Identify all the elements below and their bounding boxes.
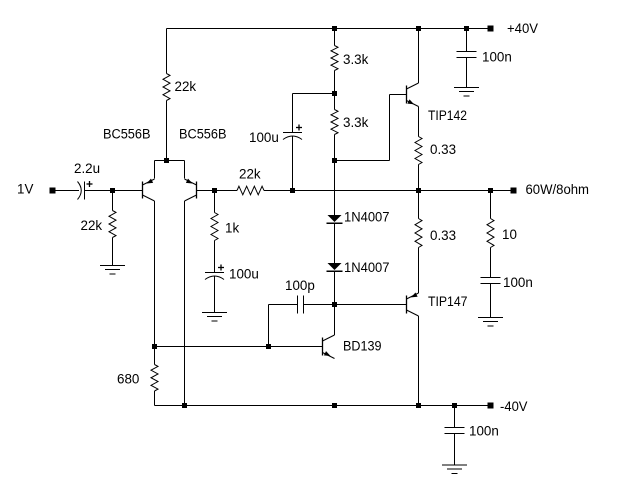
- svg-text:3.3k: 3.3k: [343, 115, 369, 130]
- svg-text:3.3k: 3.3k: [343, 52, 369, 67]
- svg-text:680: 680: [117, 372, 139, 387]
- svg-text:+40V: +40V: [507, 21, 538, 36]
- svg-text:100n: 100n: [503, 275, 533, 290]
- svg-text:1V: 1V: [17, 182, 33, 197]
- svg-text:TIP142: TIP142: [428, 108, 467, 123]
- svg-text:2.2u: 2.2u: [74, 161, 100, 176]
- svg-text:22k: 22k: [175, 79, 197, 94]
- svg-text:BC556B: BC556B: [179, 127, 227, 142]
- svg-text:BC556B: BC556B: [103, 127, 151, 142]
- svg-text:1N4007: 1N4007: [344, 210, 390, 225]
- svg-text:100u: 100u: [229, 267, 259, 282]
- svg-text:0.33: 0.33: [430, 228, 456, 243]
- svg-text:1k: 1k: [225, 221, 239, 236]
- svg-text:100n: 100n: [469, 424, 499, 439]
- svg-text:22k: 22k: [81, 218, 103, 233]
- svg-text:22k: 22k: [239, 167, 261, 182]
- svg-text:10: 10: [502, 227, 517, 242]
- svg-text:100u: 100u: [249, 130, 279, 145]
- svg-text:BD139: BD139: [343, 339, 382, 354]
- svg-text:1N4007: 1N4007: [344, 260, 390, 275]
- svg-text:0.33: 0.33: [430, 142, 456, 157]
- svg-text:60W/8ohm: 60W/8ohm: [526, 182, 590, 197]
- svg-text:TIP147: TIP147: [428, 294, 468, 309]
- svg-text:-40V: -40V: [500, 399, 528, 414]
- svg-text:100n: 100n: [482, 50, 512, 65]
- svg-text:100p: 100p: [285, 278, 315, 293]
